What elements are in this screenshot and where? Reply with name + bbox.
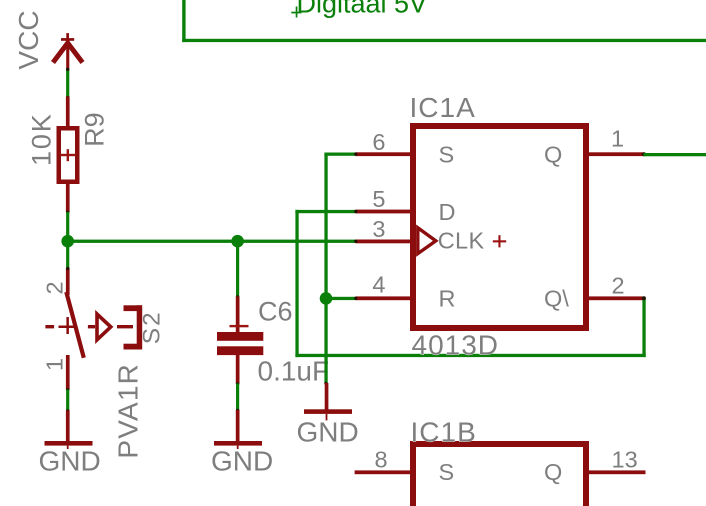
wire switch to GND1 (66, 390, 69, 412)
joint dot GND2 (236, 409, 239, 412)
frame sector bottom border (182, 39, 706, 42)
svg-text:IC1B: IC1B (411, 416, 477, 447)
joint dot C6 top (236, 295, 239, 298)
joint dot GND3 top (324, 382, 327, 385)
ground GND2 origin tick (237, 446, 239, 449)
svg-text:R: R (439, 286, 456, 312)
joint dot R9 bottom (66, 211, 69, 214)
svg-text:S2: S2 (138, 310, 165, 344)
switch S2 origin cross (59, 317, 75, 334)
joint dot GND1 (66, 409, 69, 412)
resistor R9 pin 2 (66, 184, 70, 213)
ground GND2 bar (214, 441, 262, 446)
wire VCC to R9 (66, 69, 69, 99)
joint dot switch pin 2 (66, 267, 69, 270)
switch S2 blade (66, 292, 84, 358)
IC1B pin Q stub (13) (589, 470, 646, 474)
resistor R9 pin 1 (66, 97, 70, 127)
svg-text:GND: GND (211, 446, 273, 477)
svg-text:C6: C6 (258, 297, 293, 327)
svg-text:8: 8 (375, 446, 388, 472)
wire bottom return D to Qbar (295, 354, 645, 357)
op-amp/flip-flop IC1A body (413, 126, 586, 328)
svg-text:1: 1 (42, 358, 68, 371)
svg-text:S: S (439, 459, 455, 485)
svg-text:4013D: 4013D (412, 330, 500, 361)
wire C6 to GND2 (236, 384, 239, 411)
IC1A pin D stub (5) (356, 210, 411, 214)
junction node A (61, 235, 74, 248)
capacitor C6 plate 2 (217, 346, 263, 355)
capacitor C6 pin 2 (236, 355, 240, 384)
ground GND1 bar (45, 441, 93, 446)
resistor R9 body (59, 128, 78, 182)
clock input triangle (418, 228, 436, 254)
svg-text:CLK: CLK (438, 227, 485, 253)
frame sector left border (182, 0, 185, 42)
capacitor C6 pin 1 (236, 297, 240, 333)
joint dot pin 3 (354, 240, 357, 243)
joint dot pin 5 (354, 210, 357, 213)
joint dot VCC stem (66, 68, 69, 71)
svg-text:GND: GND (297, 416, 359, 447)
svg-text:4: 4 (372, 272, 385, 298)
IC1A pin Qbar stub (2) (589, 296, 643, 300)
IC1A pin Q stub (1) (589, 152, 644, 156)
switch S2 pin 1 stub (66, 355, 70, 390)
wire S/R net vertical (324, 154, 327, 384)
joint dot pin 2 (642, 296, 646, 300)
ground GND3 origin tick (326, 414, 328, 421)
svg-text:1: 1 (611, 126, 624, 152)
switch S2 actuator bracket (124, 305, 143, 349)
svg-text:Q: Q (544, 459, 562, 485)
svg-text:Q\: Q\ (544, 286, 569, 312)
IC1A pin R stub (4) (356, 296, 411, 300)
switch S2 dash 1 (45, 325, 54, 328)
joint dot pin 4 (354, 297, 357, 300)
IC1A pin CLK stub (3) (356, 240, 411, 244)
svg-text:D: D (439, 199, 456, 225)
joint dot pin 6 (354, 152, 357, 155)
junction node C (320, 292, 333, 305)
svg-text:0.1uF: 0.1uF (258, 356, 330, 387)
svg-text:3: 3 (372, 216, 385, 242)
svg-text:S: S (439, 142, 455, 168)
svg-text:VCC: VCC (13, 10, 44, 69)
switch S2 dash 2 (88, 325, 95, 328)
wire S pin horizontal (324, 153, 355, 156)
switch S2 actuator arrow (97, 314, 111, 340)
frame label Digitaal 5V origin cross (291, 7, 301, 18)
resistor R9 origin cross (60, 149, 76, 161)
joint dot C6 bottom (236, 382, 239, 385)
wire R9 to node A (66, 212, 69, 242)
svg-text:PVA1R: PVA1R (113, 363, 144, 459)
svg-text:6: 6 (372, 129, 385, 155)
capacitor C6 plate 1 (217, 332, 263, 341)
IC1B pin S stub (8) (355, 470, 410, 474)
power symbol VCC (53, 33, 83, 69)
svg-text:2: 2 (612, 272, 625, 298)
flip-flop IC1B body (413, 444, 586, 506)
capacitor C6 origin cross (230, 325, 249, 327)
wire node A to switch pin 2 (66, 241, 69, 269)
ground GND3 bar (304, 409, 352, 414)
wire D pin horizontal (295, 210, 355, 213)
svg-text:IC1A: IC1A (410, 92, 476, 123)
joint dot R9 top (66, 96, 69, 99)
svg-text:Q: Q (544, 142, 562, 168)
wire Q output (644, 153, 706, 156)
svg-text:13: 13 (612, 446, 638, 472)
wire node A to CLK pin (main horizontal) (66, 240, 356, 243)
svg-text:Digitaal 5V: Digitaal 5V (297, 0, 428, 19)
ground GND1 origin tick (67, 446, 69, 449)
switch S2 pin 2 stub (66, 268, 70, 295)
junction node B (231, 235, 244, 248)
joint dot switch pin 1 (66, 388, 69, 391)
svg-text:2: 2 (42, 281, 68, 294)
svg-text:R9: R9 (79, 112, 109, 147)
svg-text:5: 5 (372, 186, 385, 212)
IC1A pin S stub (6) (356, 152, 411, 156)
wire R pin from node C (326, 297, 356, 300)
CLK plus sign (493, 235, 506, 247)
ground GND3 stem (325, 383, 329, 410)
ground GND1 stem (66, 411, 70, 442)
ground GND2 stem (236, 410, 240, 442)
switch S2 actuator link (117, 325, 133, 328)
joint dot pin 1 (642, 152, 646, 156)
svg-text:10K: 10K (26, 112, 56, 165)
wire Qbar vertical (642, 297, 645, 357)
svg-text:GND: GND (39, 446, 101, 477)
wire D net vertical (295, 210, 298, 357)
wire node B to C6 (236, 241, 239, 298)
